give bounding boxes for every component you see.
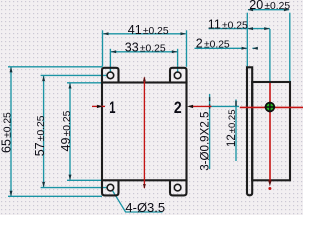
svg-text:57±0.25: 57±0.25 bbox=[33, 115, 47, 156]
svg-text:2: 2 bbox=[174, 99, 182, 117]
svg-text:12±0.25: 12±0.25 bbox=[226, 109, 238, 147]
svg-text:20±0.25: 20±0.25 bbox=[249, 0, 290, 12]
svg-text:4-Ø3.5: 4-Ø3.5 bbox=[125, 200, 165, 215]
svg-text:11±0.25: 11±0.25 bbox=[208, 18, 248, 32]
svg-text:33±0.25: 33±0.25 bbox=[125, 40, 166, 54]
svg-text:65±0.25: 65±0.25 bbox=[0, 112, 14, 153]
svg-text:49±0.25: 49±0.25 bbox=[59, 110, 73, 151]
svg-text:3-Ø0.9X2.5: 3-Ø0.9X2.5 bbox=[198, 112, 211, 171]
svg-text:2±0.25: 2±0.25 bbox=[196, 37, 230, 51]
svg-text:41±0.25: 41±0.25 bbox=[128, 23, 169, 37]
svg-text:1: 1 bbox=[109, 98, 115, 117]
